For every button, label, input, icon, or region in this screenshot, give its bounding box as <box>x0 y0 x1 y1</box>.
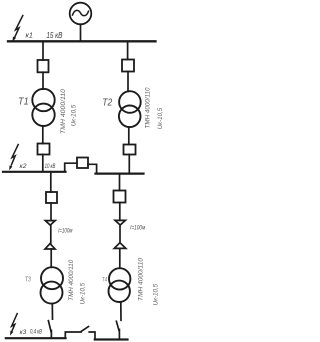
svg-text:ТМН 4000/110: ТМН 4000/110 <box>145 87 151 129</box>
transformer T2 <box>119 91 141 127</box>
wire T2 to breaker Q4 <box>128 127 130 144</box>
breaker Q6 <box>46 192 57 203</box>
15 kV busbar <box>8 40 156 42</box>
wire bus1 to breaker Q2 <box>127 42 129 59</box>
wire cable to transformer T3 <box>50 249 52 267</box>
wire S2 to 0.4kV bus <box>118 330 120 340</box>
svg-text:Uк-10,5: Uк-10,5 <box>158 107 164 129</box>
bus sectionalizer riser left <box>65 332 81 338</box>
svg-text:к2: к2 <box>20 163 27 170</box>
cable termination up (left) <box>45 244 55 249</box>
svg-text:15 кВ: 15 кВ <box>46 31 63 40</box>
wire T3 to switch S1 <box>51 304 53 319</box>
svg-text:ТМН 4000/110: ТМН 4000/110 <box>69 259 75 301</box>
svg-text:l=100м: l=100м <box>58 228 72 234</box>
svg-text:к1: к1 <box>26 31 34 40</box>
wire Q2 to transformer T2 <box>127 72 129 92</box>
generator G1 circle <box>70 3 92 25</box>
cable termination down (left) <box>45 221 55 226</box>
svg-text:Т1: Т1 <box>18 95 29 107</box>
wire generator to 15kV bus <box>80 24 82 40</box>
svg-text:Т4: Т4 <box>102 277 107 284</box>
svg-text:ТМН 4000/110: ТМН 4000/110 <box>138 257 144 301</box>
cable termination up (right) <box>114 243 126 249</box>
svg-text:Uк-10,5: Uк-10,5 <box>72 104 78 126</box>
wire Q3 to 10kV left bus <box>42 155 44 172</box>
svg-text:Uк-10,5: Uк-10,5 <box>153 283 159 305</box>
transformer T3 <box>41 267 64 303</box>
0.4 kV left bus section <box>6 337 66 339</box>
breaker Q2 <box>122 60 134 72</box>
svg-text:10 кВ: 10 кВ <box>45 163 56 170</box>
fault marker K2 lightning arrow <box>9 145 18 171</box>
svg-text:ТМН 4000/110: ТМН 4000/110 <box>61 88 67 134</box>
generator G1 sine symbol <box>73 10 89 15</box>
switch S1 blade <box>48 321 51 332</box>
wire cable to transformer T4 <box>119 248 121 268</box>
10 kV right bus section <box>96 173 144 175</box>
svg-text:к3: к3 <box>20 330 27 336</box>
fault marker K1 lightning arrow <box>12 16 22 42</box>
transformer T4 <box>109 268 131 302</box>
bus sectionalizer switch S3 blade <box>82 327 89 332</box>
svg-text:Т3: Т3 <box>25 277 31 284</box>
switch S2 blade <box>116 321 119 330</box>
breaker Q3 <box>38 144 50 155</box>
wire bus1 to breaker Q1 <box>42 42 44 60</box>
wire Q6 to cable termination <box>50 203 52 221</box>
cable wire (right) <box>119 225 121 242</box>
cable wire (left) <box>50 225 52 243</box>
svg-text:Uк-10,5: Uк-10,5 <box>81 282 87 304</box>
cable termination down (right) <box>115 220 125 225</box>
breaker Q4 <box>124 145 136 155</box>
bus tie: wire to right bus <box>88 164 97 173</box>
wire left bus to breaker Q6 <box>50 173 52 192</box>
0.4 kV right bus section <box>95 338 128 340</box>
svg-text:l=100м: l=100м <box>130 226 145 232</box>
bus tie: riser from left bus <box>65 163 77 171</box>
svg-text:0,4 кВ: 0,4 кВ <box>30 329 42 336</box>
bus sectionalizer riser right <box>89 332 95 340</box>
wire Q4 to 10kV right bus <box>128 155 130 173</box>
svg-text:Т2: Т2 <box>102 96 112 108</box>
wire T1 to breaker Q3 <box>42 126 44 144</box>
wire S1 to 0.4kV bus <box>50 331 52 338</box>
10 kV left bus section <box>3 171 66 173</box>
wire T4 to switch S2 <box>120 302 122 321</box>
transformer T1 <box>32 89 54 126</box>
fault marker K3 lightning arrow <box>10 314 17 336</box>
wire Q7 to cable termination <box>119 203 121 221</box>
wire Q1 to transformer T1 <box>42 72 44 89</box>
breaker Q1 <box>38 60 49 72</box>
bus tie breaker Q5 <box>77 158 88 169</box>
wire right bus to breaker Q7 <box>119 175 121 191</box>
breaker Q7 <box>114 191 126 203</box>
